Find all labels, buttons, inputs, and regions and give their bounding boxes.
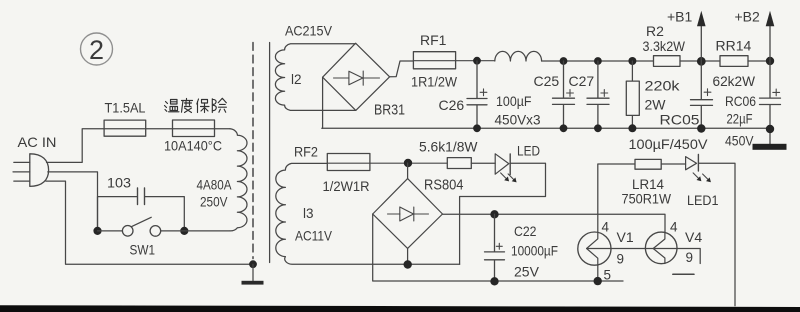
switch SW1 [122,217,160,236]
capacitor RC06 22uF 450V [760,61,781,129]
svg-text:4: 4 [602,219,610,234]
svg-text:1/2W1R: 1/2W1R [323,178,370,194]
wire V1 pin4 [597,214,599,232]
svg-text:RC05: RC05 [660,112,700,128]
svg-text:100µF: 100µF [496,93,532,109]
node junction C22 plus [490,210,498,218]
ground (B2 filter) [769,129,771,144]
tube heater V1 [578,232,611,265]
capacitor C25 [553,61,575,128]
tube heater V4 [645,232,677,264]
svg-text:25V: 25V [514,263,540,279]
wire LED1 cathode down right side [698,163,735,305]
svg-text:RF2: RF2 [294,144,318,160]
node junction +B2 [766,57,774,65]
stub under V4 [673,273,694,275]
wire pin9 V1 to V4 [587,249,701,264]
node junction C25 [560,57,568,65]
svg-text:2W: 2W [645,97,667,113]
resistor LR14 750R1W [635,159,661,169]
wire plug-neutral down to switch row [48,172,98,231]
wire bridge minus rail [373,214,623,281]
wire inductor to R2 [542,60,654,62]
svg-text:+B2: +B2 [735,9,761,25]
node junction C22 minus [490,277,498,285]
svg-text:T1.5AL: T1.5AL [105,100,146,116]
node junction C25 return [560,124,568,132]
transformer T1 primary winding 4A80A 250V [230,129,248,231]
svg-text:2: 2 [89,35,104,65]
thermal fuse 10A140C [173,120,215,137]
wire bridge minus to lower rail [322,77,324,128]
wire bridge plus rail to V4 pin4 [443,214,666,232]
resistor RR14 62k2W [720,56,748,67]
node junction live/cap/switch left [93,227,101,235]
wire switch to node [161,230,185,232]
node junction C27 return [594,124,602,132]
wire heater rail up to LR14 [598,164,635,214]
wire RR14 to +B2 [748,60,770,62]
svg-text:LR14: LR14 [632,176,664,192]
wire node to transformer primary [184,230,229,232]
svg-text:l3: l3 [303,206,314,221]
svg-text:AC IN: AC IN [18,134,57,150]
svg-text:9: 9 [686,250,694,265]
svg-text:5.6k1/8W: 5.6k1/8W [419,138,478,154]
bridge rectifier BR31 [323,43,390,110]
wire LED return crossing dc rail [460,163,546,264]
svg-text:C26: C26 [439,97,465,113]
transformer secondary winding I3 AC11V [276,163,408,264]
fuse T1.5AL [104,120,146,136]
svg-text:RF1: RF1 [420,32,447,48]
wire bridge plus to RF1 [390,61,414,77]
svg-text:9: 9 [617,252,625,267]
node junction cap/switch right [180,227,188,235]
filter inductor L1 [495,51,542,61]
capacitor C26 100uF450V [467,61,487,128]
svg-text:+B1: +B1 [667,9,693,25]
node junction C26 return [473,124,481,132]
node junction 220k return [628,124,636,132]
svg-text:AC215V: AC215V [285,23,333,39]
svg-text:62k2W: 62k2W [713,73,756,89]
node junction bridge/winding return [404,260,412,268]
svg-text:220k: 220k [645,78,681,94]
svg-text:C25: C25 [534,73,560,89]
svg-text:750R1W: 750R1W [622,191,672,207]
wire lower dc return rail [322,127,770,129]
svg-text:450V: 450V [725,133,754,149]
node junction 220k [628,57,636,65]
transformer shield line [269,43,271,263]
svg-text:AC11V: AC11V [295,227,333,243]
transformer secondary winding I2 AC215V [275,44,355,111]
node junction C27 [594,57,602,65]
svg-text:450Vx3: 450Vx3 [495,112,541,128]
capacitor C22 10000uF 25V [485,214,505,281]
LED indicator [495,154,516,183]
capacitor 103 [138,188,145,205]
wire capacitor C(103) right to node [145,197,184,231]
power arrow +B2 [769,26,771,62]
svg-text:103: 103 [107,175,131,191]
wire 5.6k to LED [471,162,495,164]
node junction +B1 [697,57,706,66]
svg-text:100µF/450V: 100µF/450V [629,136,709,152]
svg-text:22µF: 22µF [727,111,753,127]
wire R2 to RR14 [680,60,720,62]
wire ac return rail to LED branch [408,263,460,265]
svg-text:V1: V1 [617,229,634,245]
resistor body 220k [626,81,639,115]
svg-text:250V: 250V [200,194,228,210]
svg-text:5: 5 [604,268,612,283]
LED1 indicator [686,155,711,183]
wire to switch [98,230,123,232]
black page border (bottom) [0,305,800,312]
svg-text:RR14: RR14 [716,38,752,54]
svg-text:1R1/2W: 1R1/2W [411,74,458,90]
resistor R2 3.3k2W [654,56,681,67]
wire I3 top through RF2 [327,162,447,164]
node junction V1 pin5 on return rail [594,277,602,285]
wire V1 pin5 [597,265,599,281]
wire plug third lead to core ground [46,181,250,264]
svg-text:10000µF: 10000µF [511,243,558,259]
wire node to bridge ac top [407,163,409,179]
svg-text:BR31: BR31 [374,103,405,119]
wire to capacitor C(103) left [98,197,137,231]
wire through RF1 to inductor [413,60,494,62]
wire plug-line to fuse row [47,129,231,163]
wire bridge ac bottom to node [407,248,409,264]
svg-text:RC06: RC06 [725,93,756,109]
svg-text:V4: V4 [685,229,702,245]
resistor 220k 2W [631,61,633,128]
AC plug P1 [13,154,49,187]
fusible resistor RF1 1R1/2W [413,52,455,69]
transformer core (dashed) [252,43,254,259]
fusible resistor RF2 1/2W1R [327,154,370,171]
capacitor C27 [587,61,609,128]
resistor 5.6k1/8W [447,158,471,169]
node junction RF2/bridge/LED branch [404,159,412,167]
label 温度保险 (thermal fuse) [165,98,227,112]
svg-text:RS804: RS804 [424,177,464,193]
capacitor RC05 100uF/450V [691,61,713,129]
node junction RC06 return [766,125,774,133]
power arrow +B1 [700,26,702,62]
svg-text:C22: C22 [514,223,537,239]
circled figure number 2 [81,33,113,65]
node junction core ground [249,260,257,268]
wire LR14 to LED1 [661,163,685,165]
svg-text:SW1: SW1 [130,242,156,258]
svg-text:l2: l2 [291,72,302,87]
svg-text:4A80A: 4A80A [197,177,233,193]
node junction RC05 return [697,124,705,132]
node junction RF1/C26 [473,57,481,65]
svg-text:LED1: LED1 [687,192,719,208]
bridge rectifier RS804 [373,179,443,249]
svg-text:R2: R2 [646,23,664,39]
svg-text:C27: C27 [569,73,595,89]
svg-text:4: 4 [670,219,678,234]
svg-text:LED: LED [517,142,540,158]
svg-text:3.3k2W: 3.3k2W [643,38,686,54]
svg-text:10A140°C: 10A140°C [164,138,222,154]
